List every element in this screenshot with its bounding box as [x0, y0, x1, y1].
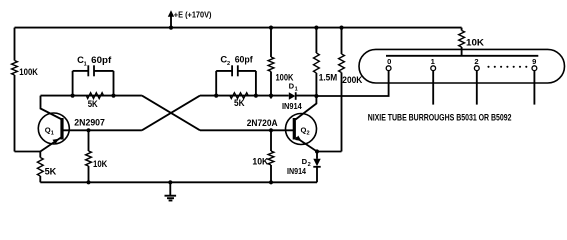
svg-text:1: 1 [431, 57, 436, 66]
svg-text:2: 2 [307, 131, 310, 137]
svg-text:2: 2 [227, 61, 230, 67]
svg-text:100K: 100K [19, 66, 38, 77]
svg-text:100K: 100K [276, 72, 294, 83]
svg-text:NIXIE TUBE BURROUGHS B5031 OR: NIXIE TUBE BURROUGHS B5031 OR B5092 [368, 112, 512, 122]
svg-text:1.5M: 1.5M [319, 72, 338, 83]
svg-text:+E (+170V): +E (+170V) [174, 9, 212, 19]
svg-text:10K: 10K [252, 156, 268, 167]
svg-text:10K: 10K [466, 36, 484, 47]
svg-text:5K: 5K [234, 97, 245, 108]
svg-text:1: 1 [295, 87, 298, 93]
svg-text:IN914: IN914 [282, 102, 302, 111]
svg-text:2: 2 [308, 162, 311, 168]
svg-text:IN914: IN914 [287, 167, 306, 176]
svg-text:1: 1 [51, 131, 54, 137]
svg-text:2N720A: 2N720A [247, 117, 278, 128]
svg-text:2: 2 [474, 57, 478, 66]
svg-text:1: 1 [84, 61, 87, 67]
svg-text:10K: 10K [93, 158, 107, 169]
svg-text:9: 9 [532, 57, 536, 66]
svg-text:5K: 5K [88, 98, 98, 109]
svg-text:60pf: 60pf [235, 54, 254, 65]
svg-text:0: 0 [387, 57, 391, 66]
svg-text:2N2907: 2N2907 [74, 116, 105, 127]
svg-text:200K: 200K [342, 74, 362, 85]
svg-text:60pf: 60pf [91, 54, 112, 65]
svg-text:5K: 5K [45, 165, 57, 176]
